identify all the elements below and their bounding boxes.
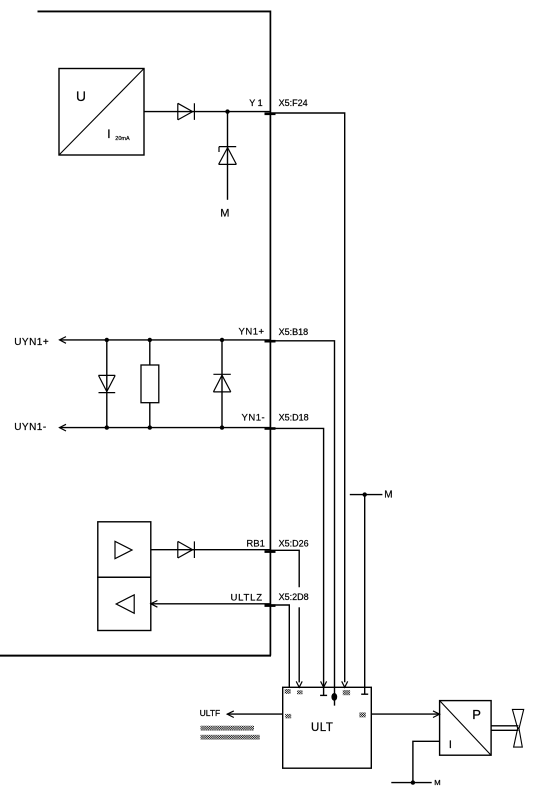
svg-text:UYN1+: UYN1+ bbox=[14, 337, 49, 348]
svg-text:YN1-: YN1- bbox=[242, 412, 266, 423]
svg-text:RB1: RB1 bbox=[246, 538, 264, 549]
svg-text:X5:D18: X5:D18 bbox=[279, 413, 309, 423]
svg-text:X5:2D8: X5:2D8 bbox=[279, 592, 309, 602]
svg-text:UYN1-: UYN1- bbox=[14, 422, 47, 433]
svg-text:M: M bbox=[384, 490, 392, 501]
svg-text:P: P bbox=[472, 707, 481, 722]
svg-text:X5:D26: X5:D26 bbox=[279, 539, 309, 549]
svg-text:X5:B18: X5:B18 bbox=[279, 327, 309, 337]
svg-text:20mA: 20mA bbox=[115, 136, 130, 142]
svg-text:Y 1: Y 1 bbox=[249, 98, 262, 108]
svg-text:I: I bbox=[449, 739, 452, 751]
svg-text:YN1+: YN1+ bbox=[239, 327, 265, 338]
svg-text:I: I bbox=[107, 127, 110, 141]
svg-text:U: U bbox=[76, 89, 86, 104]
svg-text:M: M bbox=[220, 208, 229, 220]
svg-text:X5:F24: X5:F24 bbox=[279, 98, 308, 108]
svg-text:ULTF: ULTF bbox=[200, 708, 221, 718]
svg-text:M: M bbox=[434, 778, 440, 787]
svg-text:ULT: ULT bbox=[311, 722, 333, 734]
svg-text:ULTLZ: ULTLZ bbox=[231, 592, 263, 603]
